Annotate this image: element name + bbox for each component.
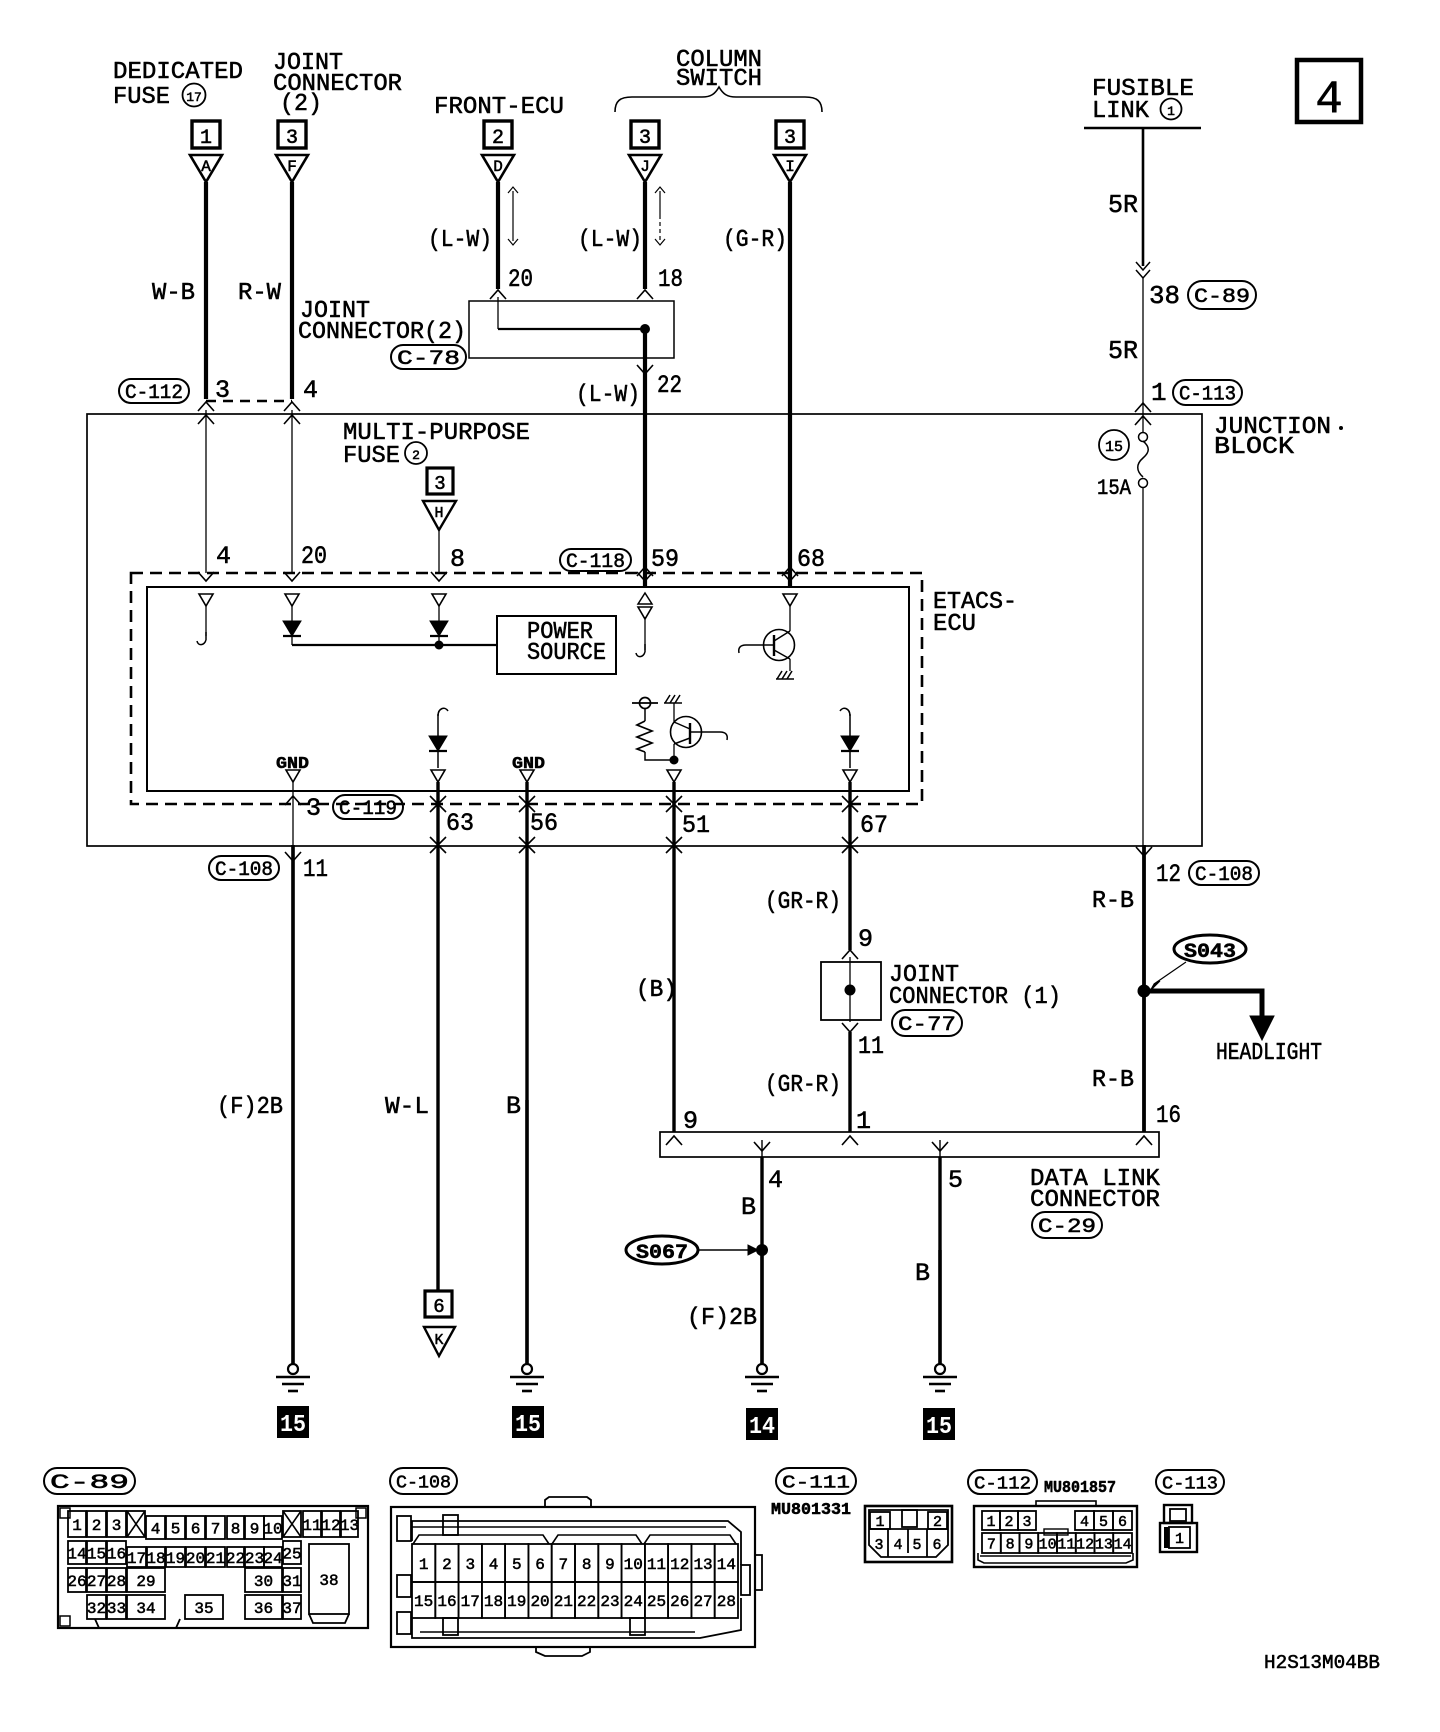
svg-text:1: 1 <box>419 1556 429 1574</box>
svg-text:W-L: W-L <box>385 1094 429 1121</box>
svg-text:(B): (B) <box>636 977 677 1004</box>
svg-text:H: H <box>434 505 443 522</box>
svg-text:(GR-R): (GR-R) <box>765 1072 841 1099</box>
svg-text:S067: S067 <box>636 1242 688 1265</box>
svg-text:12: 12 <box>1076 1536 1094 1553</box>
svg-text:35: 35 <box>194 1600 213 1618</box>
svg-text:14: 14 <box>1114 1536 1132 1553</box>
svg-text:HEADLIGHT: HEADLIGHT <box>1216 1040 1322 1067</box>
svg-text:15: 15 <box>87 1545 106 1563</box>
svg-text:2: 2 <box>933 1514 942 1531</box>
svg-text:C-118: C-118 <box>566 551 625 574</box>
svg-text:6: 6 <box>1118 1514 1127 1531</box>
svg-text:11: 11 <box>647 1556 666 1574</box>
svg-text:12: 12 <box>321 1517 340 1535</box>
svg-text:13: 13 <box>340 1517 359 1535</box>
svg-text:8: 8 <box>1006 1536 1015 1553</box>
svg-text:10: 10 <box>1039 1536 1057 1553</box>
svg-text:C-108: C-108 <box>396 1473 451 1493</box>
svg-text:28: 28 <box>717 1593 736 1611</box>
svg-text:15: 15 <box>280 1412 306 1439</box>
svg-text:J: J <box>640 158 650 176</box>
svg-text:R-B: R-B <box>1092 888 1134 915</box>
svg-text:34: 34 <box>136 1600 155 1618</box>
svg-text:1: 1 <box>200 127 212 150</box>
svg-text:(L-W): (L-W) <box>576 382 640 409</box>
svg-text:6: 6 <box>932 1537 941 1554</box>
svg-text:15: 15 <box>414 1593 433 1611</box>
svg-text:LINK: LINK <box>1092 98 1150 125</box>
svg-text:SOURCE: SOURCE <box>527 640 606 667</box>
svg-text:6: 6 <box>433 1296 444 1318</box>
svg-text:(2): (2) <box>280 91 322 118</box>
svg-text:16: 16 <box>107 1545 126 1563</box>
svg-text:A: A <box>201 158 211 176</box>
svg-text:4: 4 <box>216 542 231 571</box>
svg-text:CONNECTOR: CONNECTOR <box>1030 1187 1160 1214</box>
svg-text:15: 15 <box>926 1414 952 1441</box>
svg-text:9: 9 <box>858 925 873 954</box>
svg-text:10: 10 <box>263 1520 282 1538</box>
svg-text:4: 4 <box>489 1556 499 1574</box>
svg-text:7: 7 <box>559 1556 569 1574</box>
svg-text:32: 32 <box>87 1600 106 1618</box>
svg-text:11: 11 <box>858 1032 884 1061</box>
svg-text:C-119: C-119 <box>339 798 397 821</box>
svg-text:4: 4 <box>303 376 318 405</box>
svg-text:(GR-R): (GR-R) <box>765 889 841 916</box>
svg-text:R-B: R-B <box>1092 1067 1134 1094</box>
svg-text:19: 19 <box>166 1550 185 1568</box>
svg-text:1: 1 <box>875 1514 884 1531</box>
svg-text:K: K <box>434 1332 443 1349</box>
svg-text:(L-W): (L-W) <box>428 227 492 254</box>
svg-text:2: 2 <box>92 1517 102 1535</box>
svg-text:ECU: ECU <box>933 611 976 638</box>
svg-text:C-89: C-89 <box>50 1472 129 1495</box>
svg-text:31: 31 <box>282 1573 301 1591</box>
svg-text:C-78: C-78 <box>397 348 460 371</box>
svg-text:4: 4 <box>1080 1514 1089 1531</box>
svg-text:H2S13M04BB: H2S13M04BB <box>1264 1652 1380 1674</box>
svg-text:1: 1 <box>1167 104 1175 119</box>
svg-text:B: B <box>506 1092 521 1121</box>
svg-text:27: 27 <box>693 1593 712 1611</box>
svg-text:11: 11 <box>303 855 328 884</box>
svg-text:2: 2 <box>492 127 504 150</box>
svg-text:C-112: C-112 <box>125 382 183 405</box>
svg-text:I: I <box>785 158 795 176</box>
svg-text:20: 20 <box>508 265 533 294</box>
svg-text:(G-R): (G-R) <box>723 227 787 254</box>
svg-text:38: 38 <box>319 1572 338 1590</box>
svg-text:22: 22 <box>657 371 682 400</box>
svg-text:3: 3 <box>465 1556 475 1574</box>
svg-text:59: 59 <box>651 545 679 574</box>
svg-text:7: 7 <box>211 1520 221 1538</box>
svg-text:C-112: C-112 <box>974 1474 1031 1494</box>
svg-text:17: 17 <box>186 90 202 105</box>
svg-text:5: 5 <box>912 1537 921 1554</box>
svg-text:FRONT-ECU: FRONT-ECU <box>434 94 564 121</box>
svg-text:DEDICATED: DEDICATED <box>113 59 243 86</box>
svg-text:27: 27 <box>87 1573 106 1591</box>
svg-text:9: 9 <box>1024 1536 1033 1553</box>
svg-text:MU801331: MU801331 <box>771 1501 851 1520</box>
svg-text:25: 25 <box>647 1593 666 1611</box>
svg-text:SWITCH: SWITCH <box>676 66 762 93</box>
svg-text:C-108: C-108 <box>1195 864 1253 887</box>
svg-text:28: 28 <box>107 1573 126 1591</box>
svg-text:CONNECTOR (1): CONNECTOR (1) <box>889 984 1061 1011</box>
svg-text:C-77: C-77 <box>898 1014 956 1037</box>
svg-text:22: 22 <box>577 1593 596 1611</box>
svg-text:29: 29 <box>136 1573 155 1591</box>
svg-text:3: 3 <box>286 127 298 150</box>
svg-text:13: 13 <box>693 1556 712 1574</box>
svg-text:B: B <box>915 1259 930 1288</box>
svg-text:21: 21 <box>206 1550 225 1568</box>
svg-text:25: 25 <box>282 1545 301 1563</box>
svg-text:3: 3 <box>1022 1514 1031 1531</box>
svg-text:5: 5 <box>512 1556 522 1574</box>
svg-text:21: 21 <box>554 1593 573 1611</box>
svg-text:1: 1 <box>986 1514 995 1531</box>
svg-text:7: 7 <box>987 1536 996 1553</box>
svg-text:9: 9 <box>250 1520 260 1538</box>
svg-text:5: 5 <box>1099 1514 1108 1531</box>
svg-text:FUSE: FUSE <box>113 84 170 111</box>
svg-text:22: 22 <box>226 1550 245 1568</box>
svg-text:6: 6 <box>191 1520 201 1538</box>
svg-text:12: 12 <box>1156 860 1181 889</box>
svg-text:18: 18 <box>146 1550 165 1568</box>
svg-text:3: 3 <box>874 1537 883 1554</box>
svg-text:B: B <box>741 1193 756 1222</box>
svg-text:4: 4 <box>893 1537 902 1554</box>
svg-text:26: 26 <box>670 1593 689 1611</box>
svg-text:R-W: R-W <box>238 280 282 307</box>
svg-text:14: 14 <box>749 1414 775 1441</box>
svg-text:C-29: C-29 <box>1038 1216 1096 1239</box>
svg-text:C-111: C-111 <box>782 1473 850 1493</box>
svg-text:MU801857: MU801857 <box>1044 1479 1116 1498</box>
svg-text:17: 17 <box>127 1550 146 1568</box>
svg-text:1: 1 <box>72 1517 82 1535</box>
svg-text:C-113: C-113 <box>1179 384 1236 407</box>
svg-text:(L-W): (L-W) <box>578 227 642 254</box>
svg-text:2: 2 <box>1004 1514 1013 1531</box>
svg-text:15A: 15A <box>1097 476 1132 501</box>
svg-text:CONNECTOR(2): CONNECTOR(2) <box>298 319 466 346</box>
svg-text:33: 33 <box>107 1600 126 1618</box>
svg-text:3: 3 <box>784 127 796 150</box>
svg-text:F: F <box>287 158 297 176</box>
svg-text:12: 12 <box>670 1556 689 1574</box>
svg-text:(F)2B: (F)2B <box>217 1094 283 1121</box>
svg-text:4: 4 <box>151 1520 161 1538</box>
svg-text:3: 3 <box>306 794 321 823</box>
svg-text:14: 14 <box>67 1545 86 1563</box>
svg-text:9: 9 <box>605 1556 615 1574</box>
svg-text:W-B: W-B <box>152 280 195 307</box>
svg-text:56: 56 <box>530 809 558 838</box>
svg-text:C-113: C-113 <box>1162 1474 1218 1494</box>
svg-text:17: 17 <box>461 1593 480 1611</box>
svg-text:D: D <box>493 158 503 176</box>
svg-text:63: 63 <box>446 809 474 838</box>
svg-text:5R: 5R <box>1108 336 1138 366</box>
svg-text:BLOCK: BLOCK <box>1214 434 1295 461</box>
svg-text:4: 4 <box>768 1166 783 1195</box>
svg-text:11: 11 <box>302 1517 321 1535</box>
svg-text:16: 16 <box>1156 1101 1181 1130</box>
svg-text:5R: 5R <box>1108 190 1138 220</box>
svg-text:14: 14 <box>717 1556 736 1574</box>
svg-text:2: 2 <box>412 448 420 463</box>
svg-text:37: 37 <box>282 1600 301 1618</box>
svg-text:8: 8 <box>231 1520 241 1538</box>
svg-text:3: 3 <box>112 1517 122 1535</box>
svg-text:36: 36 <box>254 1600 273 1618</box>
svg-text:8: 8 <box>582 1556 592 1574</box>
svg-text:67: 67 <box>860 811 888 840</box>
svg-text:15: 15 <box>515 1412 541 1439</box>
svg-text:68: 68 <box>797 545 825 574</box>
svg-text:20: 20 <box>530 1593 549 1611</box>
svg-text:10: 10 <box>624 1556 643 1574</box>
svg-text:38: 38 <box>1149 281 1180 311</box>
svg-text:5: 5 <box>948 1166 963 1195</box>
svg-text:51: 51 <box>682 811 710 840</box>
svg-text:16: 16 <box>437 1593 456 1611</box>
svg-text:15: 15 <box>1105 439 1123 456</box>
svg-text:S043: S043 <box>1184 941 1236 964</box>
svg-text:18: 18 <box>484 1593 503 1611</box>
svg-text:C-89: C-89 <box>1194 286 1250 309</box>
svg-text:24: 24 <box>263 1550 282 1568</box>
svg-text:(F)2B: (F)2B <box>687 1305 757 1332</box>
svg-text:1: 1 <box>1151 378 1167 408</box>
svg-text:2: 2 <box>442 1556 452 1574</box>
svg-text:1: 1 <box>1175 1531 1184 1548</box>
svg-text:24: 24 <box>624 1593 643 1611</box>
svg-text:20: 20 <box>186 1550 205 1568</box>
svg-text:18: 18 <box>658 265 683 294</box>
svg-text:3: 3 <box>639 127 651 150</box>
svg-text:19: 19 <box>507 1593 526 1611</box>
svg-text:C-108: C-108 <box>215 859 273 882</box>
svg-text:3: 3 <box>434 473 445 495</box>
svg-text:11: 11 <box>1057 1536 1075 1553</box>
svg-text:4: 4 <box>1315 74 1343 126</box>
svg-text:8: 8 <box>450 545 465 574</box>
svg-text:30: 30 <box>254 1573 273 1591</box>
svg-text:13: 13 <box>1095 1536 1113 1553</box>
svg-text:26: 26 <box>67 1573 86 1591</box>
svg-text:23: 23 <box>600 1593 619 1611</box>
svg-text:FUSE: FUSE <box>343 443 400 470</box>
svg-text:5: 5 <box>171 1520 181 1538</box>
svg-text:6: 6 <box>535 1556 545 1574</box>
svg-text:23: 23 <box>245 1550 264 1568</box>
svg-text:20: 20 <box>301 542 327 571</box>
